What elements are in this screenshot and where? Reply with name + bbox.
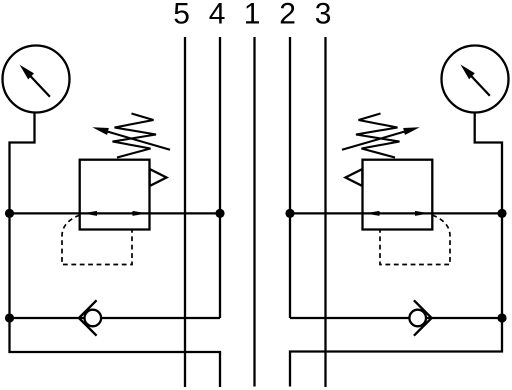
svg-text:4: 4 bbox=[209, 0, 226, 31]
svg-text:5: 5 bbox=[173, 0, 190, 31]
svg-text:1: 1 bbox=[244, 0, 261, 31]
svg-text:2: 2 bbox=[279, 0, 296, 31]
svg-text:3: 3 bbox=[315, 0, 332, 31]
